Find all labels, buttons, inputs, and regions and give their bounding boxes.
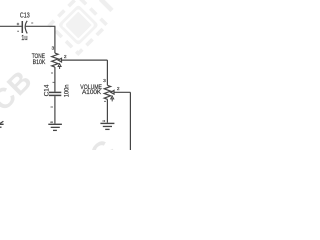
svg-text:C13: C13 [20,11,30,20]
svg-text:3: 3 [52,46,55,52]
svg-text:1u: 1u [21,35,27,42]
svg-text:2: 2 [64,54,67,60]
svg-text:3: 3 [103,78,106,84]
svg-text:B10K: B10K [33,59,46,66]
svg-text:100n: 100n [63,84,70,97]
svg-text:A100K: A100K [82,89,102,96]
svg-text:2: 2 [117,86,120,92]
svg-text:C14: C14 [43,84,50,96]
